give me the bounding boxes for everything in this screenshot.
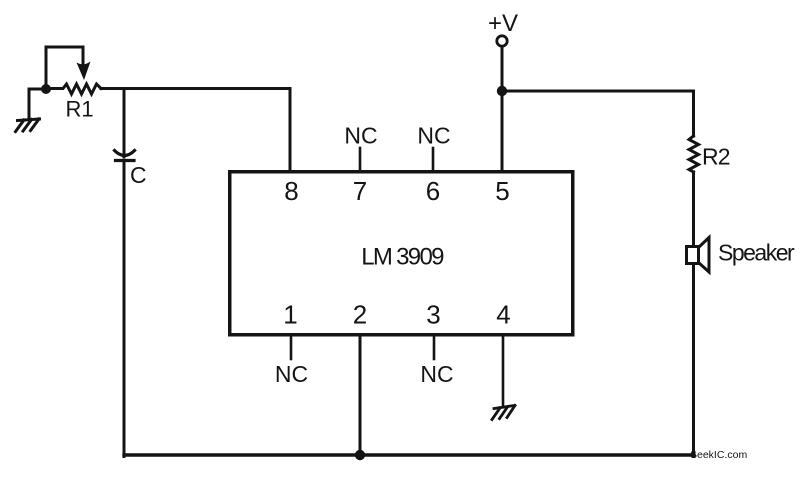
svg-text:NC: NC	[417, 123, 450, 149]
svg-text:5: 5	[495, 176, 509, 206]
wire (capacitor bottom lead down left rail)	[123, 162, 126, 457]
wire (pin 4 stub down to ground)	[502, 335, 505, 405]
node C (junction dot on +V line)	[497, 86, 507, 96]
svg-text:3: 3	[426, 300, 440, 330]
speaker SP1 (horn)	[699, 238, 710, 273]
resistor R2 (vertical zigzag)	[689, 136, 699, 172]
wire (pin 6 stub)	[432, 148, 435, 171]
svg-text:4: 4	[496, 300, 510, 330]
svg-text:6: 6	[426, 176, 440, 206]
svg-text:SeekIC.com: SeekIC.com	[690, 449, 747, 461]
capacitor C (straight plate)	[116, 159, 135, 162]
node B (junction dot bottom rail / pin 2)	[355, 450, 365, 460]
node A (junction dot at R1 left)	[41, 84, 51, 94]
wire (capacitor top lead)	[123, 89, 126, 158]
+V terminal circle	[497, 36, 507, 46]
svg-text:NC: NC	[420, 361, 453, 387]
svg-text:C: C	[130, 162, 147, 188]
wire (R2 to speaker)	[692, 172, 695, 246]
wire (pin 7 stub)	[359, 148, 362, 171]
wire (+V junction right to R2)	[502, 91, 694, 136]
svg-text:8: 8	[284, 176, 298, 206]
svg-text:1: 1	[283, 300, 297, 330]
wire (pin 1 stub)	[290, 335, 293, 359]
ground GND2 (pin 4, chassis style)	[492, 406, 515, 420]
wire (R1 right to pin 8 corner)	[101, 87, 290, 90]
ground GND1 (left, chassis style)	[16, 89, 47, 132]
svg-text:2: 2	[353, 300, 367, 330]
svg-text:NC: NC	[344, 123, 377, 149]
IC U1 LM3909 (package box)	[230, 172, 573, 335]
capacitor C (curved plate)	[115, 151, 135, 156]
wire (down to pin 8)	[289, 89, 292, 172]
arrowhead of R1 wiper	[77, 62, 91, 81]
svg-text:LM 3909: LM 3909	[361, 244, 444, 271]
wire (+V down to pin 5)	[501, 47, 504, 172]
svg-text:R2: R2	[702, 144, 730, 170]
bottom rail wire	[124, 453, 694, 456]
wire (wiper loop of R1)	[46, 47, 83, 87]
wire (pin 3 stub)	[433, 335, 436, 359]
wire (speaker to bottom rail)	[692, 264, 695, 457]
svg-text:7: 7	[353, 176, 367, 206]
potentiometer R1 (zigzag)	[46, 84, 101, 94]
svg-text:NC: NC	[275, 361, 308, 387]
svg-text:Speaker: Speaker	[718, 240, 795, 266]
wire (pin 2 stub down to rail)	[359, 335, 362, 455]
speaker SP1 (coil box)	[687, 247, 699, 264]
svg-text:+V: +V	[488, 10, 518, 37]
svg-text:R1: R1	[65, 97, 93, 122]
